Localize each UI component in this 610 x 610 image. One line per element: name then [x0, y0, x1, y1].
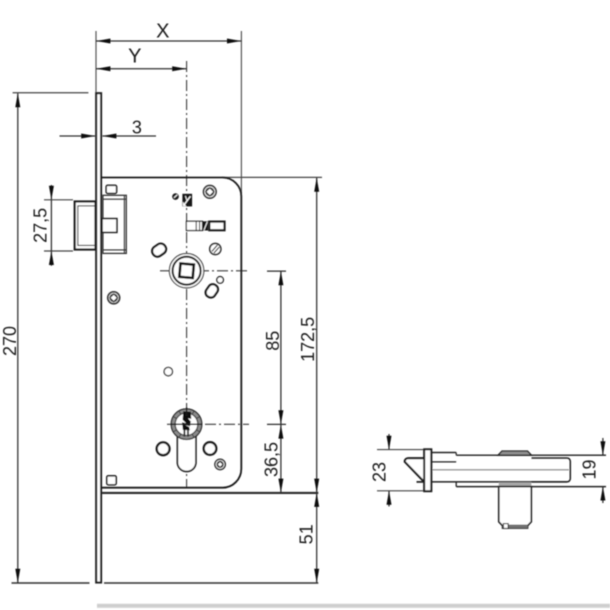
- svg-text:3: 3: [132, 117, 142, 137]
- svg-text:85: 85: [263, 331, 283, 351]
- svg-text:23: 23: [370, 462, 390, 482]
- svg-text:X: X: [156, 21, 169, 43]
- svg-text:27,5: 27,5: [31, 208, 51, 243]
- svg-text:36,5: 36,5: [261, 442, 281, 477]
- svg-text:Y: Y: [128, 45, 141, 67]
- svg-text:172,5: 172,5: [298, 317, 318, 362]
- svg-text:51: 51: [297, 524, 317, 544]
- svg-text:19: 19: [579, 459, 599, 479]
- svg-text:270: 270: [0, 326, 20, 356]
